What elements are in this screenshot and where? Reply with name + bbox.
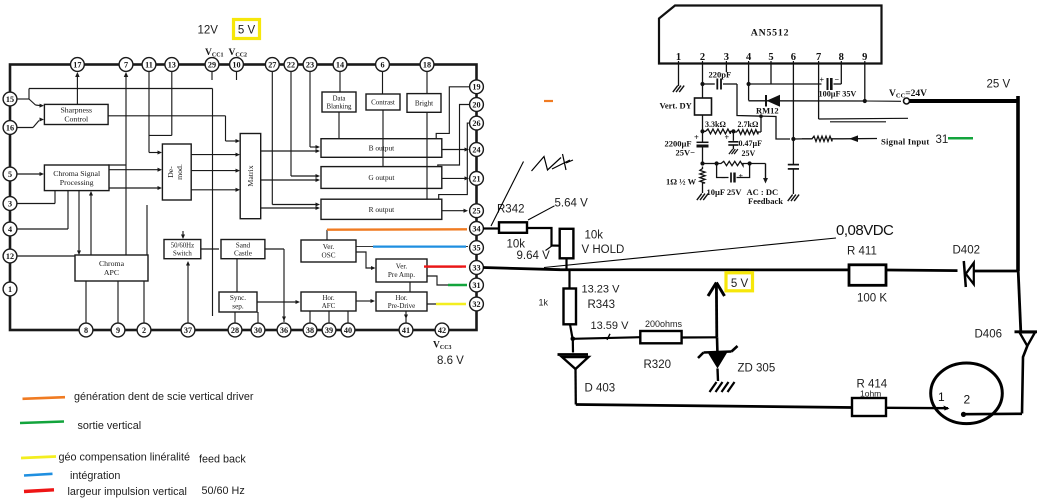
svg-text:mod.: mod. (175, 164, 184, 180)
svg-text:220pF: 220pF (709, 70, 732, 80)
svg-text:APC: APC (104, 268, 119, 277)
svg-text:22: 22 (287, 60, 295, 69)
svg-text:25: 25 (472, 207, 480, 216)
svg-text:Pre-Drive: Pre-Drive (388, 302, 416, 310)
svg-text:Chroma Signal: Chroma Signal (53, 169, 101, 178)
svg-text:+: + (725, 133, 730, 142)
svg-text:Processing: Processing (60, 178, 94, 187)
svg-text:9: 9 (116, 326, 120, 335)
svg-text:D406: D406 (975, 329, 1003, 341)
svg-text:42: 42 (438, 326, 446, 335)
svg-text:1k: 1k (539, 298, 549, 308)
svg-text:32: 32 (472, 300, 480, 309)
svg-text:génération dent de scie vertic: génération dent de scie vertical driver (74, 391, 254, 403)
svg-text:25V: 25V (742, 149, 756, 158)
svg-text:9.64 V: 9.64 V (517, 250, 551, 262)
svg-text:+: + (739, 172, 744, 181)
svg-text:37: 37 (184, 326, 192, 335)
svg-text:24: 24 (472, 145, 480, 154)
svg-text:35: 35 (472, 244, 480, 253)
svg-text:Sharpness: Sharpness (60, 106, 92, 115)
svg-text:100µF 35V: 100µF 35V (819, 90, 857, 99)
svg-text:25V−: 25V− (676, 148, 696, 158)
svg-text:100 K: 100 K (857, 293, 887, 305)
svg-text:31: 31 (472, 281, 480, 290)
svg-text:géo compensation linéralité: géo compensation linéralité (59, 452, 190, 464)
svg-text:intégration: intégration (70, 470, 120, 482)
svg-text:13: 13 (168, 60, 176, 69)
svg-text:Hor.: Hor. (395, 294, 408, 302)
svg-text:R343: R343 (588, 299, 616, 311)
svg-text:B output: B output (369, 144, 396, 153)
svg-text:36: 36 (280, 326, 288, 335)
svg-text:R320: R320 (644, 359, 672, 371)
svg-text:OSC: OSC (322, 252, 336, 260)
svg-text:21: 21 (472, 174, 480, 183)
svg-text:8.6 V: 8.6 V (437, 355, 464, 367)
svg-text:largeur impulsion vertical: largeur impulsion vertical (68, 486, 187, 498)
svg-text:Sand: Sand (236, 241, 251, 249)
svg-text:4: 4 (8, 225, 12, 234)
svg-text:12V: 12V (198, 25, 219, 37)
svg-text:25 V: 25 V (987, 79, 1011, 91)
svg-text:Control: Control (64, 115, 89, 124)
svg-text:5 V: 5 V (238, 25, 256, 37)
svg-text:30: 30 (254, 326, 262, 335)
svg-text:23: 23 (306, 60, 314, 69)
svg-text:38: 38 (306, 326, 314, 335)
svg-text:Matrix: Matrix (246, 165, 255, 186)
svg-text:+: + (820, 76, 825, 85)
svg-text:G output: G output (368, 173, 395, 182)
svg-text:Ver.: Ver. (323, 243, 335, 251)
svg-text:D 403: D 403 (585, 383, 616, 395)
svg-text:5: 5 (8, 170, 12, 179)
svg-text:feed back: feed back (199, 453, 246, 465)
svg-text:−: − (835, 75, 840, 84)
svg-text:Data: Data (333, 95, 346, 102)
svg-text:10µF 25V: 10µF 25V (707, 187, 743, 197)
svg-text:41: 41 (402, 326, 410, 335)
svg-text:33: 33 (472, 263, 480, 272)
svg-text:Vert. DY: Vert. DY (660, 101, 692, 111)
svg-text:27: 27 (268, 60, 276, 69)
svg-text:11: 11 (145, 60, 153, 69)
svg-text:De-: De- (166, 166, 175, 178)
svg-text:15: 15 (6, 95, 14, 104)
svg-text:200ohms: 200ohms (645, 319, 683, 329)
svg-text:Switch: Switch (173, 250, 192, 257)
svg-text:31: 31 (936, 134, 949, 146)
svg-text:Contrast: Contrast (371, 98, 395, 106)
svg-text:RM12: RM12 (756, 106, 779, 116)
svg-text:12: 12 (6, 252, 14, 261)
svg-text:3: 3 (8, 199, 12, 208)
svg-text:Pre Amp.: Pre Amp. (388, 271, 415, 279)
svg-text:28: 28 (231, 326, 239, 335)
svg-text:5 V: 5 V (731, 278, 749, 290)
svg-text:10k: 10k (585, 230, 604, 242)
svg-text:0,08VDC: 0,08VDC (836, 222, 894, 239)
svg-text:Hor.: Hor. (322, 294, 335, 302)
svg-text:R 411: R 411 (847, 246, 877, 258)
svg-text:Chroma: Chroma (99, 259, 125, 268)
svg-text:18: 18 (423, 60, 431, 69)
svg-text:40: 40 (344, 326, 352, 335)
svg-text:AN5512: AN5512 (751, 28, 790, 39)
svg-text:D402: D402 (953, 245, 981, 257)
svg-text:5.64 V: 5.64 V (555, 198, 589, 210)
svg-text:50/60 Hz: 50/60 Hz (202, 485, 245, 497)
svg-text:26: 26 (472, 119, 480, 128)
svg-text:14: 14 (336, 60, 344, 69)
svg-text:sortie vertical: sortie vertical (78, 420, 142, 432)
svg-text:Signal Input: Signal Input (881, 136, 930, 146)
svg-text:−: − (721, 174, 726, 183)
svg-text:6: 6 (380, 60, 384, 69)
svg-text:19: 19 (472, 83, 480, 92)
svg-text:0.47µF: 0.47µF (739, 139, 763, 148)
svg-text:2: 2 (142, 326, 146, 335)
svg-text:1: 1 (8, 285, 12, 294)
svg-text:AFC: AFC (322, 302, 336, 310)
svg-text:50/60Hz: 50/60Hz (171, 242, 194, 249)
svg-text:16: 16 (6, 123, 14, 132)
svg-text:17: 17 (73, 60, 81, 69)
svg-text:Castle: Castle (234, 250, 252, 258)
svg-text:1ohm: 1ohm (860, 389, 881, 399)
svg-text:Bright: Bright (415, 99, 433, 107)
svg-text:20: 20 (472, 100, 480, 109)
svg-text:34: 34 (472, 224, 480, 233)
svg-text:V HOLD: V HOLD (582, 244, 625, 256)
svg-text:Sync.: Sync. (230, 294, 246, 302)
svg-text:7: 7 (124, 60, 128, 69)
svg-text:8: 8 (84, 326, 88, 335)
svg-text:1: 1 (938, 390, 945, 404)
svg-text:10: 10 (232, 60, 240, 69)
svg-text:sep.: sep. (232, 303, 244, 311)
svg-text:10k: 10k (507, 239, 526, 251)
svg-text:R output: R output (369, 205, 396, 214)
svg-text:13.23 V: 13.23 V (582, 284, 621, 296)
svg-text:1Ω ½ W: 1Ω ½ W (666, 177, 697, 187)
svg-text:29: 29 (208, 60, 216, 69)
svg-text:3.3kΩ: 3.3kΩ (705, 120, 726, 129)
svg-text:13.59 V: 13.59 V (591, 320, 630, 332)
svg-text:+: + (694, 132, 699, 142)
svg-text:Blanking: Blanking (327, 103, 353, 110)
svg-text:Feedback: Feedback (748, 196, 783, 206)
svg-text:2.7kΩ: 2.7kΩ (738, 120, 759, 129)
svg-text:Ver.: Ver. (396, 263, 408, 271)
svg-text:2: 2 (964, 393, 971, 407)
svg-text:ZD 305: ZD 305 (738, 363, 776, 375)
svg-text:39: 39 (325, 326, 333, 335)
